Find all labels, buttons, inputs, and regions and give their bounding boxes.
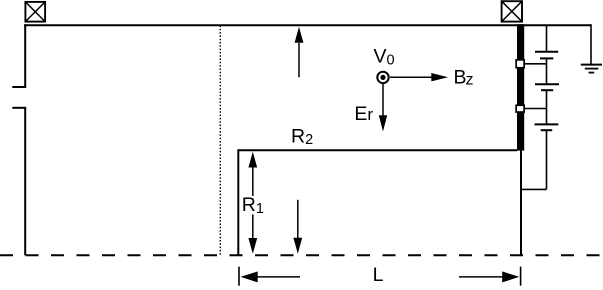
wire: capacitor chain top	[546, 25, 548, 52]
capacitor C1	[535, 52, 558, 59]
right electrode lower edge	[520, 150, 522, 255]
inner electrode top line (R2 line)	[238, 149, 517, 151]
current direction symbol left (box with X)	[25, 2, 45, 22]
capacitor C3	[535, 124, 559, 130]
current direction symbol right (box with X)	[502, 1, 522, 21]
wire: outer electrode top line	[24, 24, 591, 26]
dashed axis line	[0, 254, 603, 256]
thick electrode bar	[517, 24, 524, 150]
R2 dimension upper arrow	[295, 27, 304, 77]
wire: junction to insulator square 2	[525, 108, 547, 110]
wire: C3 down	[546, 130, 548, 189]
wire: junction to insulator square 1	[525, 63, 547, 65]
inner electrode left edge	[237, 149, 239, 255]
R2 dimension lower arrow	[293, 200, 302, 254]
dotted boundary line	[219, 26, 221, 256]
svg-text:L: L	[373, 264, 384, 286]
capacitor C2	[535, 84, 559, 90]
Bz arrow	[390, 73, 448, 81]
wire: ground lead	[590, 24, 592, 64]
left electrode upper segment	[12, 24, 26, 87]
wire: C1 to C2	[546, 58, 548, 84]
insulator square 2	[516, 105, 524, 112]
wire: C2 to C3	[546, 90, 548, 124]
left electrode lower segment	[12, 108, 26, 256]
velocity vector symbol (out of page)	[377, 72, 388, 83]
svg-text:Er: Er	[354, 103, 373, 125]
R1 dimension double arrow	[248, 152, 257, 254]
Er arrow	[379, 84, 387, 132]
L dimension	[239, 267, 521, 286]
insulator square 1	[516, 60, 524, 68]
wire: capacitor return to electrode	[521, 188, 547, 190]
ground	[581, 65, 602, 73]
